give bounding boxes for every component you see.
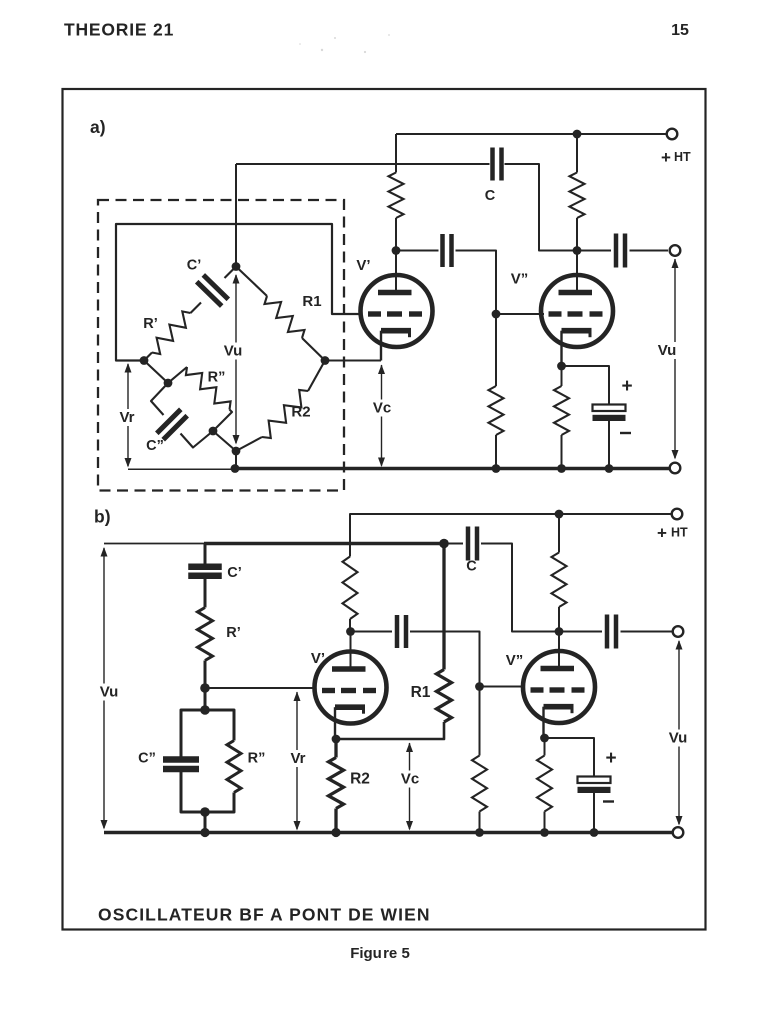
wire grid leak to ground (b) bbox=[479, 812, 481, 833]
wire V-second anode lead (a) bbox=[576, 251, 578, 291]
svg-text:+HT: +HT bbox=[661, 148, 691, 167]
wire feedback cap to V-second anode (b) bbox=[481, 544, 555, 632]
wire feedback right segment (a) bbox=[505, 164, 574, 251]
arrow Vr bottom (b) bbox=[294, 821, 301, 831]
label +HT (a) bbox=[661, 148, 691, 167]
wire V-second grid to leak resistor (a) bbox=[495, 314, 497, 386]
svg-text:Vc: Vc bbox=[401, 771, 419, 788]
wire bridge left-node to V-prime grid routing (a) bbox=[116, 224, 362, 361]
svg-text:+: + bbox=[621, 376, 632, 397]
resistor R2 (b) bbox=[329, 758, 344, 809]
label +HT (b) bbox=[657, 523, 688, 542]
label plus electrolytic (a) bbox=[621, 376, 632, 397]
resistor V-second grid leak (a) bbox=[489, 386, 504, 435]
capacitor coupling V-prime/V-second (a) bbox=[443, 234, 452, 267]
svg-text:R2: R2 bbox=[350, 771, 370, 788]
node V-second cathode (b) bbox=[540, 734, 549, 743]
terminal +HT (a) bbox=[667, 129, 678, 140]
wire V-second grid lead (b) bbox=[480, 686, 526, 688]
node grid leak ground (b) bbox=[475, 828, 484, 837]
arrow Vu left top (b) bbox=[101, 547, 108, 557]
svg-text:Vu: Vu bbox=[100, 684, 119, 701]
page number 15 bbox=[671, 22, 689, 39]
wire V-second grid lead (a) bbox=[496, 313, 544, 315]
wire R-prime to left node (a) bbox=[144, 353, 152, 361]
svg-text:15: 15 bbox=[671, 22, 689, 39]
arrow Vu bridge bottom (a) bbox=[233, 435, 240, 445]
wire arm lead top-node to C-prime (a) bbox=[225, 267, 237, 279]
svg-text:Vr: Vr bbox=[119, 409, 134, 426]
wire lead bottom-node to R2 (a) bbox=[236, 437, 262, 451]
label a) bbox=[90, 117, 106, 137]
wire feedback to cap C (b) bbox=[444, 543, 463, 545]
wire load resistor to V-second anode node (a) bbox=[576, 218, 578, 251]
label R-second (a) bbox=[208, 370, 226, 386]
wire Vc measure line (b) bbox=[409, 743, 411, 829]
ground rail (a) bbox=[235, 467, 670, 471]
svg-text:THEORIE 21: THEORIE 21 bbox=[64, 20, 174, 40]
wire coupling cap to V-second grid (b) bbox=[410, 632, 480, 687]
capacitor C-second (a) bbox=[157, 409, 187, 439]
capacitor C-prime (a) bbox=[197, 275, 229, 306]
capacitor output coupling (b) bbox=[607, 615, 616, 649]
wire cathode node to bypass cap (b) bbox=[545, 738, 595, 777]
resistor V-second anode load (a) bbox=[570, 173, 585, 219]
wire bridge node to V-prime grid (b) bbox=[205, 687, 316, 689]
svg-text:V”: V” bbox=[511, 271, 529, 288]
resistor V-prime anode load (a) bbox=[389, 173, 404, 219]
label R1 (a) bbox=[302, 293, 321, 310]
label R-prime (b) bbox=[226, 625, 241, 641]
node V-second grid (a) bbox=[492, 310, 501, 319]
wire V-second grid to leak resistor (b) bbox=[479, 687, 481, 756]
wire C-prime to R-prime (b) bbox=[204, 579, 207, 608]
wire left node to node A (a) bbox=[144, 361, 168, 384]
label C (b) bbox=[466, 559, 477, 575]
resistor V-second grid leak (b) bbox=[472, 756, 487, 812]
capacitor C-second (b) bbox=[163, 760, 199, 770]
wire V-prime anode lead (b) bbox=[350, 632, 352, 667]
wire Vr measure line (a) bbox=[127, 364, 129, 466]
resistor R2 (a) bbox=[262, 390, 308, 438]
wire top rail thin segment (b) bbox=[104, 543, 206, 545]
wire top rail thick segment (b) bbox=[204, 542, 444, 545]
svg-text:R1: R1 bbox=[302, 293, 321, 310]
wire +HT rail (a) bbox=[396, 133, 672, 135]
arrow Vc bottom (b) bbox=[406, 821, 413, 831]
wire node A to C-second (a) bbox=[151, 383, 168, 415]
wire R1 to cathode link (b) bbox=[336, 722, 444, 739]
node bridge mid (b) bbox=[200, 683, 210, 693]
wire output cap to terminal (b) bbox=[621, 631, 673, 633]
resistor V-prime anode load (b) bbox=[343, 557, 358, 620]
svg-text:C’: C’ bbox=[227, 565, 242, 581]
label Vr (b) bbox=[286, 750, 310, 767]
resistor R-prime (b) bbox=[198, 608, 213, 661]
svg-text:R2: R2 bbox=[291, 404, 310, 421]
wire Vr measure line (b) bbox=[296, 692, 298, 829]
arrow Vu output bottom (a) bbox=[672, 450, 679, 460]
wire R1 to right node (a) bbox=[302, 338, 325, 361]
node +HT / V-second load junction (a) bbox=[573, 130, 582, 139]
node A parallel branch (a) bbox=[164, 379, 173, 388]
svg-text:Vu: Vu bbox=[224, 343, 243, 360]
label Vc (a) bbox=[369, 400, 395, 417]
label Vu output (a) bbox=[654, 342, 680, 359]
label plus electrolytic (b) bbox=[605, 748, 616, 769]
svg-text:C: C bbox=[485, 188, 496, 204]
wire +HT to V-second load resistor (a) bbox=[576, 134, 578, 173]
wire Vu output measure line (a) bbox=[674, 259, 676, 458]
node V-prime anode (b) bbox=[346, 627, 355, 636]
label Vu left (b) bbox=[96, 684, 123, 701]
node B parallel branch (a) bbox=[209, 427, 218, 436]
node R2 ground (b) bbox=[331, 828, 340, 837]
wire C-second to node B (a) bbox=[181, 431, 214, 448]
wire cathode resistor to ground (b) bbox=[544, 812, 546, 833]
terminal output (b) bbox=[673, 626, 684, 637]
arrow Vc top (b) bbox=[406, 743, 413, 753]
svg-text:b): b) bbox=[94, 507, 111, 527]
node V-prime anode (a) bbox=[392, 246, 401, 255]
node parallel bottom (b) bbox=[200, 807, 210, 817]
wire Vu left measure line (b) bbox=[103, 548, 105, 828]
wire parallel bottom to ground (b) bbox=[204, 812, 207, 833]
svg-text:a): a) bbox=[90, 117, 106, 137]
wire node B to bottom node (a) bbox=[213, 431, 236, 451]
arrow Vr top (a) bbox=[125, 363, 132, 373]
wire bypass cap to ground (b) bbox=[593, 793, 595, 833]
wire resistor to anode node (a) bbox=[395, 218, 397, 251]
wire V-second anode to output cap (a) bbox=[577, 250, 611, 252]
resistor R-second (b) bbox=[227, 741, 241, 793]
wire node A to R-second (a) bbox=[168, 367, 187, 383]
wire top rail to C-prime (b) bbox=[204, 544, 207, 565]
wire coupling cap to V-second grid (a) bbox=[456, 251, 497, 315]
label C-prime (b) bbox=[227, 565, 242, 581]
terminal +HT (b) bbox=[672, 509, 683, 520]
wire R1 branch vertical (b) bbox=[442, 544, 445, 670]
arrow Vr bottom (a) bbox=[125, 458, 132, 468]
svg-text:Vr: Vr bbox=[290, 750, 305, 767]
svg-text:V”: V” bbox=[506, 652, 524, 669]
terminal output (a) bbox=[670, 245, 681, 256]
node cathode resistor ground (a) bbox=[557, 464, 566, 473]
arrow Vu output top (a) bbox=[672, 259, 679, 269]
label minus electrolytic (b) bbox=[603, 800, 614, 802]
label C-second (a) bbox=[146, 438, 164, 454]
label V-second (b) bbox=[506, 652, 524, 669]
svg-text:R1: R1 bbox=[411, 684, 431, 701]
capacitor C-prime (b) bbox=[188, 567, 222, 576]
wire grid leak to ground (a) bbox=[495, 435, 497, 467]
wire Vu output measure line (b) bbox=[678, 641, 680, 824]
wire bridge bottom to ground rail (a) bbox=[235, 451, 237, 469]
wire cathode node to resistor (a) bbox=[561, 366, 563, 386]
terminal ground (b) bbox=[673, 827, 684, 838]
svg-text:V’: V’ bbox=[311, 650, 325, 667]
svg-text:C”: C” bbox=[138, 751, 156, 767]
capacitor electrolytic bypass (b) bbox=[578, 777, 611, 794]
wire R2 to ground (b) bbox=[334, 809, 337, 833]
caption Figure 5 bbox=[350, 945, 410, 962]
wire cathode node to bypass cap (a) bbox=[562, 366, 610, 405]
triode V-second (b) bbox=[523, 651, 595, 738]
node grid leak ground (a) bbox=[492, 464, 501, 473]
resistor V-second cathode (b) bbox=[537, 756, 552, 812]
node bridge left (a) bbox=[140, 356, 149, 365]
label b) bbox=[94, 507, 111, 527]
wire Vc measure line (a) bbox=[381, 365, 383, 466]
node bridge ground (a) bbox=[231, 464, 240, 473]
node +HT / V-second load junction (b) bbox=[555, 510, 564, 519]
capacitor coupling V-prime/V-second (b) bbox=[397, 615, 406, 648]
arrow Vr top (b) bbox=[294, 692, 301, 702]
node top rail / R1 / C junction (b) bbox=[439, 539, 449, 549]
wire parallel frame (b) bbox=[181, 710, 234, 812]
wire V-second anode lead (b) bbox=[558, 632, 560, 667]
node bridge right (a) bbox=[321, 356, 330, 365]
wire +HT drop to V-prime anode resistor (a) bbox=[395, 134, 397, 173]
wire output cap to terminal (a) bbox=[630, 250, 669, 252]
svg-text:C’: C’ bbox=[187, 258, 202, 274]
node bypass ground (b) bbox=[590, 828, 599, 837]
resistor R-second (a) bbox=[186, 367, 231, 410]
svg-text:R’: R’ bbox=[226, 625, 241, 641]
wire bridge node to parallel top (b) bbox=[204, 688, 207, 710]
figure frame box bbox=[63, 89, 706, 930]
arrow Vu left bottom (b) bbox=[101, 820, 108, 830]
label Vr (a) bbox=[115, 409, 139, 426]
svg-text:+: + bbox=[605, 748, 616, 769]
svg-text:C”: C” bbox=[146, 438, 164, 454]
wire bridge right node to V-prime cathode (a) bbox=[325, 360, 381, 362]
svg-text:Vu: Vu bbox=[658, 342, 677, 359]
node bridge top (a) bbox=[232, 262, 241, 271]
label R2 (a) bbox=[291, 404, 310, 421]
node V-second cathode (a) bbox=[557, 362, 566, 371]
label C-prime (a) bbox=[187, 258, 202, 274]
wire bridge top riser (a) bbox=[235, 164, 237, 267]
wire load resistor to anode node (b) bbox=[558, 607, 560, 632]
wire cathode node to resistor (b) bbox=[544, 738, 546, 756]
arrow Vu output top (b) bbox=[676, 640, 683, 650]
wire V-prime anode lead (a) bbox=[395, 251, 397, 291]
svg-text:R”: R” bbox=[208, 370, 226, 386]
wire R2 to right node (a) bbox=[308, 361, 325, 392]
wire R-second to node B (a) bbox=[213, 410, 232, 432]
resistor R-prime (a) bbox=[152, 311, 191, 354]
resistor V-second anode load (b) bbox=[552, 553, 567, 608]
svg-text:Vu: Vu bbox=[669, 730, 688, 747]
node bridge bottom (a) bbox=[232, 447, 241, 456]
page header text THEORIE 21 bbox=[64, 20, 174, 40]
wire Vu bridge measure line (a) bbox=[235, 275, 237, 443]
capacitor output coupling (a) bbox=[616, 234, 625, 268]
triode V-prime (b) bbox=[315, 652, 387, 740]
label Vc (b) bbox=[397, 771, 423, 788]
wire +HT rail (b) bbox=[350, 514, 671, 557]
wire V-second anode to output cap (b) bbox=[559, 631, 602, 633]
label V-second (a) bbox=[511, 271, 529, 288]
wire V-prime anode to coupling cap (a) bbox=[396, 250, 439, 252]
caption OSCILLATEUR BF A PONT DE WIEN bbox=[98, 905, 431, 925]
node bridge ground (b) bbox=[200, 828, 209, 837]
wire R-prime to bridge node (b) bbox=[204, 661, 207, 689]
label R2 (b) bbox=[350, 771, 370, 788]
svg-text:C: C bbox=[466, 559, 477, 575]
label V-prime (a) bbox=[356, 257, 370, 274]
label Vu bridge (a) bbox=[219, 343, 247, 360]
node V-second grid (b) bbox=[475, 682, 484, 691]
resistor R1 (a) bbox=[265, 296, 305, 338]
capacitor electrolytic bypass (a) bbox=[593, 405, 626, 422]
capacitor C (a) bbox=[493, 148, 502, 181]
label C (a) bbox=[485, 188, 496, 204]
svg-text:Figu re 5: Figu re 5 bbox=[350, 945, 410, 962]
triode V-prime (a) bbox=[361, 275, 433, 361]
resistor R1 (b) bbox=[437, 670, 452, 723]
wire feedback left segment (a) bbox=[236, 163, 490, 165]
wire R2 lead (b) bbox=[334, 739, 337, 758]
wire C-prime to R-prime (a) bbox=[191, 303, 202, 314]
wire load resistor to V-prime anode node (b) bbox=[349, 619, 351, 632]
triode V-second (a) bbox=[541, 275, 613, 366]
svg-text:V’: V’ bbox=[356, 257, 370, 274]
wire V-prime anode to coupling cap (b) bbox=[351, 631, 393, 633]
svg-text:OSCILLATEUR BF A PONT DE WIEN: OSCILLATEUR BF A PONT DE WIEN bbox=[98, 905, 431, 925]
label R1 (b) bbox=[411, 684, 431, 701]
ground rail (b) bbox=[104, 831, 673, 834]
node parallel top (b) bbox=[200, 705, 210, 715]
node V-second anode (b) bbox=[555, 627, 564, 636]
svg-text:Vc: Vc bbox=[373, 400, 391, 417]
wire bypass cap to ground (a) bbox=[608, 421, 610, 467]
label V-prime (b) bbox=[311, 650, 325, 667]
label R-second (b) bbox=[248, 751, 266, 767]
arrow Vc bottom (a) bbox=[378, 458, 385, 468]
wire cathode resistor to ground (a) bbox=[561, 435, 563, 467]
node V-second anode (a) bbox=[573, 246, 582, 255]
node bypass ground (a) bbox=[605, 464, 614, 473]
svg-text:R”: R” bbox=[248, 751, 266, 767]
label minus electrolytic (a) bbox=[620, 432, 631, 434]
label R-prime (a) bbox=[143, 316, 158, 332]
svg-text:+HT: +HT bbox=[657, 523, 688, 542]
terminal ground (a) bbox=[670, 463, 681, 474]
wire lead top-node to R1 (a) bbox=[236, 267, 267, 297]
wire V-second load resistor lead (b) bbox=[558, 514, 560, 553]
label C-second (b) bbox=[138, 751, 156, 767]
arrow Vc top (a) bbox=[378, 365, 385, 375]
resistor V-second cathode (a) bbox=[554, 386, 569, 435]
dashed bridge box (a) bbox=[98, 200, 344, 491]
arrow Vu output bottom (b) bbox=[676, 816, 683, 826]
node V-prime cathode (b) bbox=[332, 735, 341, 744]
wire ground rail thin extension to Vr (a) bbox=[128, 468, 235, 470]
svg-text:R’: R’ bbox=[143, 316, 158, 332]
arrow Vu bridge top (a) bbox=[233, 274, 240, 284]
scan noise specks bbox=[299, 34, 390, 53]
label Vu output (b) bbox=[665, 730, 691, 747]
capacitor C (b) bbox=[468, 527, 477, 561]
node cathode resistor ground (b) bbox=[540, 828, 549, 837]
